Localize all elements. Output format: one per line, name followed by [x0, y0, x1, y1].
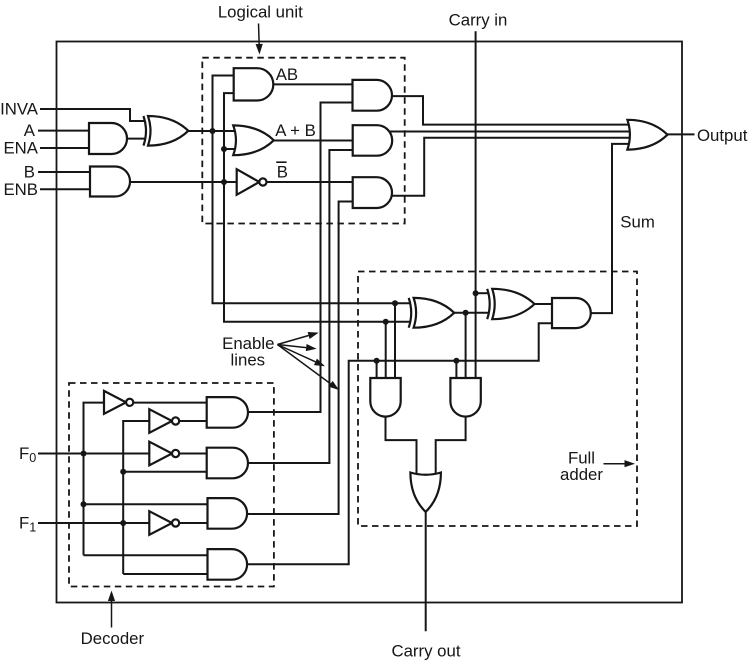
wire F0 branch to decoder AND4	[84, 554, 212, 556]
node adder B junction	[383, 319, 389, 325]
svg-text:Output: Output	[697, 126, 748, 145]
svg-text:Decoder: Decoder	[81, 629, 145, 648]
svg-text:A: A	[24, 121, 36, 140]
node F1 junction 1	[120, 469, 126, 475]
wire L1 output to output OR	[388, 96, 640, 125]
wire AB gate to enable AND L1	[270, 83, 356, 85]
svg-text:Carry in: Carry in	[449, 11, 508, 30]
inverter decoder 4	[149, 511, 172, 535]
wire XOR2 output to sum AND	[530, 303, 556, 305]
wire inverter2 output	[178, 420, 211, 422]
arrow to enable line 1	[277, 336, 308, 345]
wire F0 branch to decoder AND3	[84, 503, 212, 505]
svg-text:B: B	[277, 163, 288, 182]
wire output	[668, 133, 695, 135]
wire F1 input	[38, 522, 153, 524]
wire inverter output to enable AND L3	[267, 181, 356, 183]
svg-text:Carry out: Carry out	[391, 642, 460, 661]
wire enable line 2	[246, 150, 356, 463]
svg-text:adder: adder	[560, 465, 603, 484]
wire OR gate lower input stub	[224, 148, 241, 150]
wire A input	[38, 130, 95, 132]
wire node A vertical	[213, 76, 413, 304]
wire F1 branch to decoder AND2	[123, 471, 211, 473]
wire F1 vertical branch	[123, 421, 152, 574]
AND gate decoder 1	[207, 397, 248, 428]
node F1 junction 2	[120, 520, 126, 526]
node A-row junction	[210, 128, 216, 134]
wire B-enable output to inverter	[124, 181, 239, 183]
AND gate L1 enable	[353, 80, 392, 111]
node enable4 junction 2	[453, 358, 459, 364]
arrow to enable line 2	[277, 345, 306, 348]
wire node B vertical	[224, 93, 412, 322]
wire F0 vertical branch	[84, 403, 108, 556]
arrow to decoder	[111, 601, 113, 628]
node carry-in junction	[473, 290, 479, 296]
XOR gate adder 2	[487, 289, 495, 319]
XOR gate A-INVA	[144, 116, 151, 146]
wire ENB input	[40, 188, 95, 190]
XOR gate adder 1	[409, 298, 416, 328]
inverter B	[237, 169, 260, 195]
AND gate A-ENA	[89, 123, 127, 154]
node F0 junction 1	[81, 451, 87, 457]
node OR lower input junction	[221, 146, 227, 152]
wire inverter1 output	[132, 402, 211, 404]
wire adder AND1 output to carry OR	[386, 414, 417, 478]
output OR gate	[627, 120, 667, 150]
wire F0 input	[38, 453, 153, 455]
wire INVA input	[40, 109, 152, 121]
wire adder AND2 input xor	[465, 313, 467, 381]
svg-text:lines: lines	[231, 351, 266, 370]
arrow to full adder	[604, 463, 625, 465]
node B-bar junction	[221, 179, 227, 185]
OR gate A-plus-B	[233, 125, 274, 155]
AND gate sum enable	[552, 298, 591, 328]
node XOR1 output junction	[463, 310, 469, 316]
wire F1 branch to decoder AND4	[123, 573, 211, 575]
svg-text:ENA: ENA	[3, 139, 38, 158]
svg-text:Sum: Sum	[620, 212, 655, 231]
wire XOR1 output	[448, 312, 500, 314]
wire inverter3 output	[178, 453, 211, 455]
AND gate decoder 3	[208, 498, 248, 529]
wire enable line 1	[246, 103, 356, 413]
wire adder AND1 input a	[394, 303, 396, 381]
svg-text:INVA: INVA	[0, 100, 39, 119]
node F0 junction 2	[81, 501, 87, 507]
node enable4 junction 1	[374, 358, 380, 364]
wire adder AND2 output to carry OR	[436, 414, 466, 478]
arrow to enable line 3	[277, 345, 315, 362]
wire L3 output to output OR	[386, 138, 640, 196]
wire enable line 4	[245, 323, 556, 564]
AND gate L3 enable	[353, 177, 392, 208]
AND gate carry 2	[450, 378, 480, 417]
wire AND-A output to XOR	[120, 138, 152, 140]
AND gate carry 1	[370, 378, 400, 417]
wire adder AND1 input enable	[376, 361, 378, 381]
wire carry out	[425, 509, 427, 631]
wire OR output to enable AND L2	[270, 140, 356, 142]
inverter decoder 3	[149, 442, 172, 466]
logical unit dashed box	[202, 58, 404, 224]
wire sum AND output up to output OR	[587, 144, 640, 313]
wire adder AND2 input enable	[455, 361, 457, 381]
wire carry in	[475, 31, 477, 377]
svg-text:A + B: A + B	[275, 121, 316, 140]
wire L2 output to output OR	[386, 131, 640, 133]
AND gate B-ENB	[90, 167, 130, 197]
decoder dashed box	[69, 383, 274, 587]
svg-text:ENB: ENB	[3, 180, 38, 199]
svg-text:AB: AB	[276, 65, 298, 84]
AND gate decoder 4	[208, 549, 248, 580]
wire enable line 3	[245, 202, 356, 515]
wire inverter4 output	[178, 522, 211, 524]
wire adder AND1 input b	[385, 322, 387, 381]
inverter decoder 2	[149, 409, 172, 433]
svg-text:B: B	[24, 163, 35, 182]
inverter decoder 1	[104, 391, 126, 414]
wire XOR-A output to OR gate	[184, 130, 241, 132]
svg-text:Logical unit: Logical unit	[218, 3, 303, 22]
wire B input	[38, 171, 95, 173]
AND gate AB	[234, 68, 274, 100]
OR gate carry out	[410, 473, 441, 512]
AND gate L2 enable	[353, 125, 393, 156]
AND gate decoder 2	[207, 448, 248, 479]
node adder A junction	[392, 300, 398, 306]
arrow to enable line 4	[277, 345, 330, 384]
wire carry to XOR2	[476, 292, 491, 294]
full adder dashed box	[358, 272, 637, 527]
outer box	[57, 42, 683, 603]
arrow to logical unit	[258, 24, 261, 45]
wire ENA input	[40, 147, 95, 149]
